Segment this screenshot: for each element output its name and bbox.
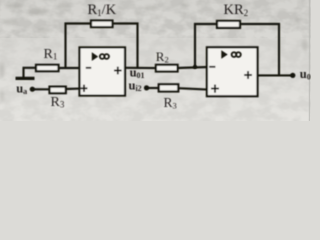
- wire R3 to op-amp U1 non-inverting input: [66, 88, 81, 91]
- ground: [16, 68, 35, 79]
- ghost print noise top-left: [0, 3, 308, 101]
- op-amp U2 gain symbol triangle: [221, 50, 227, 59]
- faint scan line right edge: [309, 0, 310, 121]
- resistor R3 (stage 1): [50, 87, 66, 94]
- input source u_a wire: [33, 88, 51, 90]
- op-amp U2 output plus mark: [244, 71, 252, 79]
- op-amp U2 minus input mark: [209, 66, 215, 68]
- input u_i2 wire to R3: [148, 87, 161, 89]
- op-amp U2 infinity symbol: [232, 52, 241, 57]
- resistor KR2: [217, 21, 240, 28]
- op-amp U1 box: [80, 47, 126, 95]
- wire R3 to op-amp U2 non-inverting input: [178, 88, 208, 89]
- wire ground to R1: [23, 67, 38, 69]
- terminal dot u_i2: [144, 85, 149, 90]
- junction node at U2 inverting input: [193, 65, 197, 69]
- output wire to u_0: [257, 74, 293, 76]
- feedback wire left vertical (node between R1 and U1): [64, 23, 66, 69]
- wire U1 output to R2: [124, 67, 157, 69]
- feedback 2 right vertical to output node: [278, 23, 280, 75]
- op-amp U1 infinity symbol: [100, 54, 109, 59]
- op-amp U1 gain symbol triangle: [92, 52, 98, 61]
- feedback top wire: [65, 22, 139, 24]
- scan grain texture: [0, 0, 311, 38]
- resistor R3 (stage 2): [159, 84, 179, 91]
- op-amp U1 minus input mark: [86, 67, 91, 69]
- resistor R1: [36, 65, 59, 71]
- feedback 2 left vertical (node at U2 inverting input): [194, 23, 196, 67]
- wire R2 to op-amp U2 inverting input: [178, 67, 208, 68]
- op-amp U1 plus input mark: [81, 85, 88, 92]
- resistor R2: [156, 65, 178, 72]
- op-amp U2 plus input mark: [211, 85, 219, 93]
- terminal dot u_a: [30, 87, 35, 92]
- resistor R1/K: [91, 21, 113, 28]
- svg-text:R1/K: R1/K: [88, 2, 117, 18]
- op-amp U1 output plus mark: [114, 67, 122, 75]
- terminal dot u_0: [290, 73, 295, 78]
- feedback wire right vertical to U1 output: [136, 23, 138, 68]
- op-amp U2 box: [207, 47, 258, 96]
- feedback 2 top wire: [194, 23, 280, 25]
- wire R1 to op-amp U1 inverting input: [59, 67, 81, 69]
